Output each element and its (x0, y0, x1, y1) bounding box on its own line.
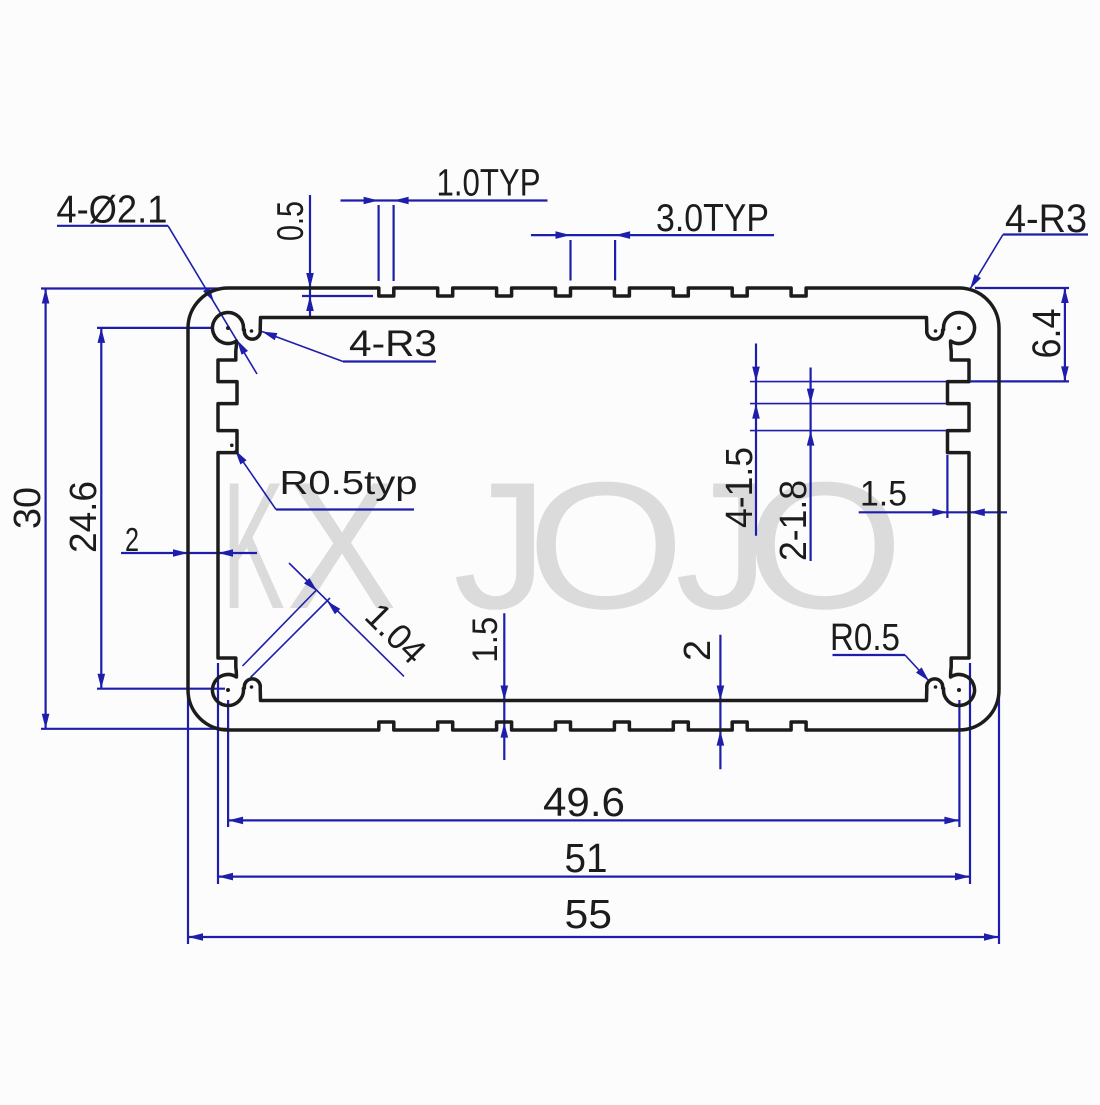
dim 6.4 right (975, 287, 1069, 289)
watermark KX JOJO (222, 444, 285, 647)
leader 4-R3 inner top left (343, 360, 436, 362)
svg-text:6.4: 6.4 (1025, 309, 1069, 359)
svg-text:K: K (222, 444, 285, 647)
svg-text:2: 2 (677, 640, 719, 661)
svg-text:2-1.8: 2-1.8 (773, 480, 815, 561)
dim 3.0TYP (531, 234, 774, 236)
enclosure outer shell (188, 288, 999, 730)
svg-text:55: 55 (565, 891, 613, 937)
svg-text:4-R3: 4-R3 (1005, 197, 1087, 241)
svg-text:1.5: 1.5 (466, 617, 505, 663)
dim 2 left wall thickness (121, 552, 257, 554)
svg-text:O: O (527, 444, 685, 647)
dim 55 (187, 694, 189, 944)
svg-text:4-1.5: 4-1.5 (719, 447, 761, 528)
leader 4-R3 top right (1003, 233, 1088, 235)
center dots (226, 326, 230, 330)
svg-text:24.6: 24.6 (63, 481, 105, 553)
dim 51 (217, 663, 219, 884)
dim 49.6 (227, 700, 229, 827)
leader R0.5 bottom right (833, 654, 906, 656)
svg-text:4-R3: 4-R3 (349, 323, 437, 364)
svg-text:51: 51 (565, 835, 608, 881)
svg-text:4-Ø2.1: 4-Ø2.1 (56, 189, 167, 232)
right side construction lines (750, 381, 1069, 383)
dim 1.5 right (859, 511, 1007, 513)
svg-text:30: 30 (7, 487, 49, 529)
dim 2-1.8 (809, 368, 811, 562)
svg-text:1.5: 1.5 (860, 475, 907, 514)
dim 24.6 left (97, 327, 213, 329)
svg-text:R0.5typ: R0.5typ (280, 464, 418, 501)
dim 4-1.5 (755, 344, 757, 536)
dim 1.04 diagonal (243, 591, 317, 667)
enclosure inner cavity with screw bosses and PCB rails (212, 312, 974, 705)
svg-text:0.5: 0.5 (270, 201, 311, 241)
dim 1.5 bottom (503, 613, 505, 760)
svg-text:R0.5: R0.5 (830, 617, 900, 659)
dim 30 left (41, 287, 227, 289)
leader R0.5typ (276, 508, 414, 510)
leader 4-dia2.1 (57, 225, 168, 227)
svg-text:2: 2 (125, 521, 139, 558)
svg-text:49.6: 49.6 (543, 779, 625, 825)
dim 1.0TYP (341, 199, 548, 201)
svg-text:1.0TYP: 1.0TYP (437, 163, 541, 205)
dim 0.5 (309, 195, 311, 318)
dim 2 bottom (719, 635, 721, 770)
svg-text:3.0TYP: 3.0TYP (656, 197, 769, 240)
